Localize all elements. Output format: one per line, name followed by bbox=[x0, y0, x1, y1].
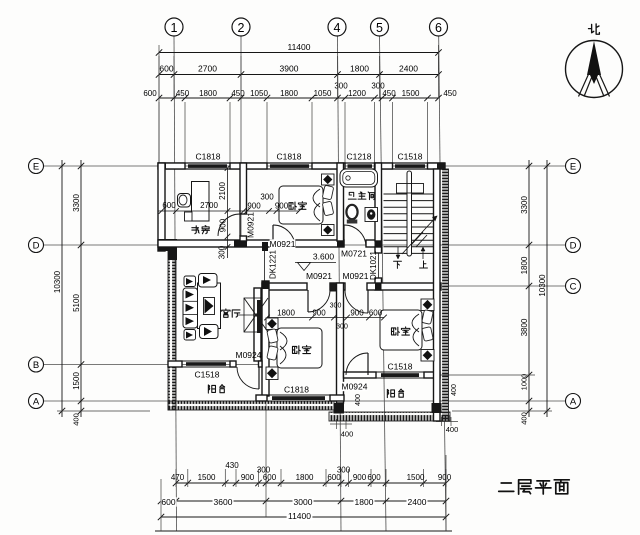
svg-text:400: 400 bbox=[355, 394, 362, 406]
svg-text:600: 600 bbox=[367, 473, 381, 482]
svg-text:M0921: M0921 bbox=[306, 271, 332, 281]
svg-text:M0721: M0721 bbox=[341, 249, 367, 259]
svg-text:3300: 3300 bbox=[72, 194, 81, 212]
svg-text:400: 400 bbox=[451, 384, 458, 396]
svg-text:C1518: C1518 bbox=[387, 362, 412, 372]
svg-text:1800: 1800 bbox=[277, 308, 295, 317]
svg-text:M0921: M0921 bbox=[246, 212, 256, 238]
svg-text:300: 300 bbox=[217, 245, 226, 259]
svg-text:1800: 1800 bbox=[355, 497, 374, 507]
svg-text:300: 300 bbox=[334, 81, 348, 90]
svg-text:M0924: M0924 bbox=[342, 382, 368, 392]
svg-text:1200: 1200 bbox=[348, 89, 366, 98]
svg-text:1500: 1500 bbox=[72, 372, 81, 390]
svg-text:4: 4 bbox=[334, 21, 341, 35]
svg-text:300: 300 bbox=[336, 324, 348, 331]
svg-text:2: 2 bbox=[238, 21, 245, 35]
svg-text:3600: 3600 bbox=[214, 497, 233, 507]
svg-text:10300: 10300 bbox=[538, 274, 547, 297]
svg-text:E: E bbox=[570, 162, 576, 173]
svg-text:430: 430 bbox=[225, 461, 239, 470]
svg-text:1800: 1800 bbox=[520, 256, 529, 274]
svg-text:300: 300 bbox=[330, 303, 342, 310]
svg-text:A: A bbox=[570, 397, 577, 408]
svg-text:3300: 3300 bbox=[520, 196, 529, 214]
svg-text:C1818: C1818 bbox=[284, 385, 309, 395]
svg-text:400: 400 bbox=[520, 412, 529, 425]
svg-text:400: 400 bbox=[341, 430, 354, 439]
svg-text:1050: 1050 bbox=[314, 89, 332, 98]
svg-text:1050: 1050 bbox=[250, 89, 268, 98]
svg-text:E: E bbox=[33, 162, 39, 173]
svg-text:450: 450 bbox=[231, 89, 245, 98]
svg-text:1800: 1800 bbox=[296, 473, 314, 482]
svg-text:2700: 2700 bbox=[200, 201, 218, 210]
svg-text:2400: 2400 bbox=[399, 64, 418, 74]
svg-text:M0924: M0924 bbox=[236, 350, 262, 360]
svg-text:900: 900 bbox=[247, 201, 261, 210]
svg-text:M0921: M0921 bbox=[270, 239, 296, 249]
svg-text:1800: 1800 bbox=[280, 89, 298, 98]
svg-text:1800: 1800 bbox=[199, 89, 217, 98]
svg-text:5100: 5100 bbox=[72, 294, 81, 312]
svg-text:D: D bbox=[570, 241, 577, 252]
svg-text:1500: 1500 bbox=[407, 473, 425, 482]
svg-text:300: 300 bbox=[260, 192, 274, 201]
svg-text:1: 1 bbox=[171, 21, 178, 35]
svg-text:C1818: C1818 bbox=[276, 152, 301, 162]
svg-text:A: A bbox=[33, 397, 40, 408]
svg-text:600: 600 bbox=[143, 89, 157, 98]
svg-text:450: 450 bbox=[176, 89, 190, 98]
svg-text:DK1021: DK1021 bbox=[369, 251, 378, 280]
svg-text:600: 600 bbox=[161, 497, 175, 507]
svg-text:2700: 2700 bbox=[198, 64, 217, 74]
svg-text:900: 900 bbox=[353, 473, 367, 482]
svg-text:450: 450 bbox=[443, 89, 457, 98]
svg-text:2400: 2400 bbox=[408, 497, 427, 507]
svg-text:11400: 11400 bbox=[288, 511, 311, 521]
svg-text:900: 900 bbox=[438, 473, 452, 482]
svg-text:900: 900 bbox=[312, 308, 326, 317]
svg-text:400: 400 bbox=[72, 413, 81, 426]
svg-text:900: 900 bbox=[241, 473, 255, 482]
svg-text:400: 400 bbox=[446, 425, 459, 434]
svg-text:C1218: C1218 bbox=[346, 152, 371, 162]
svg-text:900: 900 bbox=[275, 201, 289, 210]
svg-text:1000: 1000 bbox=[520, 374, 529, 391]
svg-text:C1818: C1818 bbox=[195, 152, 220, 162]
svg-text:600: 600 bbox=[263, 473, 277, 482]
svg-text:11400: 11400 bbox=[287, 42, 310, 52]
svg-text:1800: 1800 bbox=[350, 64, 369, 74]
svg-text:M0921: M0921 bbox=[343, 271, 369, 281]
svg-text:1500: 1500 bbox=[402, 89, 420, 98]
svg-text:3.600: 3.600 bbox=[313, 252, 335, 262]
svg-text:C1518: C1518 bbox=[397, 152, 422, 162]
svg-text:DK1221: DK1221 bbox=[268, 250, 277, 279]
svg-text:10300: 10300 bbox=[53, 270, 62, 293]
svg-text:3900: 3900 bbox=[280, 64, 299, 74]
svg-text:3000: 3000 bbox=[294, 497, 313, 507]
svg-text:B: B bbox=[33, 360, 39, 371]
svg-text:300: 300 bbox=[337, 465, 351, 474]
svg-text:470: 470 bbox=[171, 473, 185, 482]
svg-text:600: 600 bbox=[162, 201, 176, 210]
svg-text:900: 900 bbox=[218, 218, 227, 232]
svg-text:C: C bbox=[570, 282, 577, 293]
svg-text:C1518: C1518 bbox=[194, 370, 219, 380]
svg-text:D: D bbox=[33, 241, 40, 252]
svg-text:3800: 3800 bbox=[520, 318, 529, 336]
svg-text:600: 600 bbox=[159, 64, 173, 74]
svg-text:1500: 1500 bbox=[198, 473, 216, 482]
svg-text:450: 450 bbox=[382, 89, 396, 98]
svg-text:6: 6 bbox=[435, 21, 442, 35]
svg-text:600: 600 bbox=[369, 308, 383, 317]
svg-text:2100: 2100 bbox=[218, 182, 227, 200]
svg-text:900: 900 bbox=[350, 308, 364, 317]
svg-text:5: 5 bbox=[376, 21, 383, 35]
